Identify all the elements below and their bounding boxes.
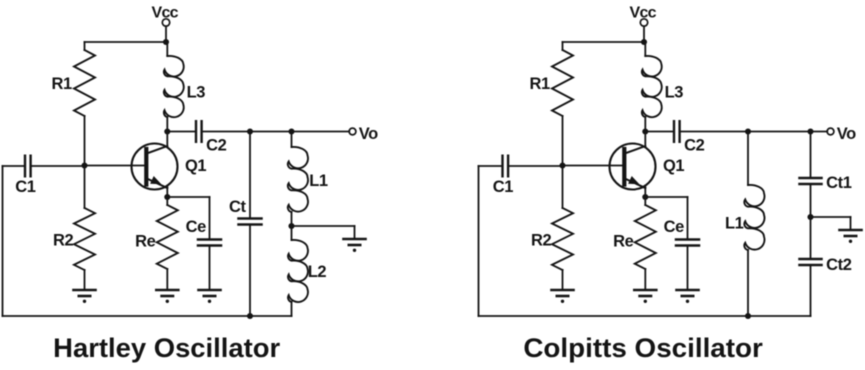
Colpitts: capacitor Ct2 bbox=[800, 258, 822, 261]
svg-text:Ct2: Ct2 bbox=[826, 256, 852, 274]
svg-text:C1: C1 bbox=[493, 178, 514, 196]
Colpitts: wire collector node to Q1 bbox=[644, 132, 646, 148]
Colpitts: capacitor Ct1 bbox=[800, 177, 822, 180]
Hartley: wire C2 to output rail bbox=[202, 131, 350, 133]
Colpitts: inductor L3 bbox=[642, 56, 662, 117]
Colpitts: transistor Q1 body bbox=[610, 144, 656, 190]
Hartley: wire L3 top lead bbox=[166, 42, 168, 56]
Colpitts: wire Re to ground bbox=[644, 269, 646, 290]
Colpitts: wire Ce top lead bbox=[687, 197, 689, 240]
Colpitts: transistor Q1 base bar bbox=[622, 149, 626, 185]
Hartley: junction L1 node bbox=[288, 128, 294, 134]
svg-text:L1: L1 bbox=[725, 215, 744, 233]
Hartley: ground below Re bbox=[156, 289, 178, 292]
Colpitts: capacitor C1 bbox=[501, 156, 503, 177]
Colpitts: wire Ct1 top lead bbox=[810, 132, 812, 179]
Colpitts: wire Q1 emitter to emitter node bbox=[644, 186, 646, 198]
svg-text:Vo: Vo bbox=[837, 125, 856, 143]
Hartley: wire collector node to Q1 bbox=[166, 132, 168, 148]
svg-text:Q1: Q1 bbox=[663, 157, 684, 175]
Colpitts: junction top node bbox=[641, 39, 647, 45]
Hartley: wire L1 to tap node bbox=[291, 212, 293, 226]
svg-text:Ce: Ce bbox=[186, 218, 207, 236]
svg-text:R1: R1 bbox=[530, 75, 551, 93]
Hartley: bottom rail wire bbox=[3, 315, 292, 317]
Hartley: resistor R1 bbox=[74, 50, 95, 116]
Hartley: wire C1 to base node bbox=[31, 165, 85, 167]
Hartley: wire collector node to C2 bbox=[167, 131, 196, 133]
Hartley: transistor Q1 emitter arrowhead bbox=[150, 176, 161, 184]
Colpitts: wire Ct1 to tap node bbox=[810, 184, 812, 217]
Colpitts: ground below Ce bbox=[677, 289, 699, 292]
Colpitts: wire R1 to base node bbox=[562, 116, 564, 166]
Hartley: wire Ce to ground bbox=[209, 246, 211, 291]
Colpitts: wire Re top lead bbox=[644, 197, 646, 205]
Hartley: junction base node bbox=[81, 162, 87, 168]
Hartley: transistor Q1 emitter stroke bbox=[147, 179, 168, 189]
Colpitts: Vcc terminal bbox=[640, 19, 647, 26]
Colpitts: wire Vcc to top node bbox=[643, 26, 645, 42]
Colpitts: wire L3 to collector node bbox=[644, 117, 646, 132]
Colpitts: wire R1 top lead bbox=[562, 42, 564, 50]
Colpitts: ground below Re bbox=[634, 289, 656, 292]
svg-text:R2: R2 bbox=[531, 231, 552, 249]
Hartley: ground at tap bbox=[344, 238, 366, 241]
Colpitts: ground at tap bbox=[840, 229, 862, 232]
svg-text:Q1: Q1 bbox=[185, 157, 206, 175]
svg-text:C1: C1 bbox=[15, 178, 36, 196]
Hartley: wire R2 top lead bbox=[84, 166, 86, 209]
Colpitts: wire L1 top lead bbox=[747, 132, 749, 186]
Colpitts: wire R2 top lead bbox=[562, 166, 564, 209]
Hartley: wire top rail to R1 bbox=[85, 41, 167, 43]
Colpitts: junction Ct1 node bbox=[807, 128, 813, 134]
Hartley: wire Ct bottom lead bbox=[249, 225, 251, 317]
Colpitts: output terminal Vo bbox=[827, 128, 834, 135]
svg-text:Re: Re bbox=[613, 233, 634, 251]
Colpitts: resistor Re bbox=[635, 205, 656, 269]
Hartley: wire Re to ground bbox=[166, 269, 168, 290]
Hartley: inductor L2 bbox=[288, 240, 308, 302]
svg-text:Vo: Vo bbox=[359, 125, 378, 143]
Hartley: transistor Q1 base bar bbox=[144, 149, 148, 185]
Hartley: wire tap to ground bbox=[292, 225, 355, 227]
Colpitts: wire C1 left lead bbox=[479, 165, 503, 167]
Colpitts: junction collector node bbox=[642, 128, 648, 134]
Hartley: resistor Re bbox=[157, 205, 178, 269]
Colpitts: wire emitter node to Ce bbox=[645, 196, 687, 198]
Colpitts: wire tap to ground bbox=[811, 216, 851, 218]
Hartley: junction top node bbox=[163, 39, 169, 45]
Colpitts: wire Ct2 bottom lead bbox=[810, 265, 812, 316]
Hartley: transistor Q1 collector stroke bbox=[147, 146, 168, 154]
Hartley: inductor L3 bbox=[164, 56, 184, 117]
Colpitts: wire L1 bottom lead bbox=[747, 250, 749, 316]
Colpitts: wire L3 top lead bbox=[644, 42, 646, 56]
svg-text:L3: L3 bbox=[665, 84, 684, 102]
Hartley: ground below R2 bbox=[74, 289, 96, 292]
Hartley: wire R1 top lead bbox=[84, 42, 86, 50]
Hartley: output terminal Vo bbox=[349, 128, 356, 135]
Hartley: transistor Q1 body bbox=[132, 144, 178, 190]
Colpitts: junction L1 bottom node bbox=[745, 313, 751, 319]
Colpitts: wire base bbox=[563, 165, 623, 167]
Hartley: wire left edge bbox=[2, 166, 4, 316]
Colpitts: wire C1 to base node bbox=[508, 165, 562, 167]
Colpitts: transistor Q1 emitter arrowhead bbox=[628, 176, 639, 184]
svg-text:Colpitts Oscillator: Colpitts Oscillator bbox=[523, 333, 763, 363]
svg-text:Hartley Oscillator: Hartley Oscillator bbox=[53, 333, 281, 363]
Hartley: resistor R2 bbox=[74, 208, 95, 270]
Colpitts: junction base node bbox=[559, 162, 565, 168]
Hartley: capacitor C2 bbox=[195, 121, 197, 142]
Hartley: junction Ct node bbox=[247, 128, 253, 134]
Hartley: wire L2 top lead bbox=[291, 226, 293, 240]
Hartley: wire C1 left lead bbox=[3, 165, 26, 167]
svg-text:L3: L3 bbox=[187, 84, 206, 102]
Hartley: wire L1 top lead bbox=[291, 132, 293, 148]
Hartley: Vcc terminal bbox=[162, 19, 169, 26]
Hartley: junction emitter node bbox=[164, 194, 170, 200]
svg-text:Re: Re bbox=[135, 233, 156, 251]
Hartley: junction tap node bbox=[288, 223, 294, 229]
svg-text:C2: C2 bbox=[684, 137, 705, 155]
svg-text:R2: R2 bbox=[53, 231, 74, 249]
svg-text:Ct1: Ct1 bbox=[826, 174, 852, 192]
svg-text:L2: L2 bbox=[308, 263, 327, 281]
Hartley: capacitor C1 bbox=[24, 156, 26, 177]
svg-text:Ce: Ce bbox=[664, 218, 685, 236]
Colpitts: junction emitter node bbox=[642, 194, 648, 200]
Colpitts: inductor L1 bbox=[744, 185, 764, 250]
Hartley: junction collector node bbox=[164, 128, 170, 134]
Colpitts: transistor Q1 emitter stroke bbox=[625, 179, 646, 189]
Hartley: wire R2 to ground bbox=[84, 270, 86, 290]
Hartley: ground below Ce bbox=[199, 289, 221, 292]
Hartley: capacitor Ct bbox=[239, 217, 262, 220]
Colpitts: wire collector node to C2 bbox=[645, 131, 674, 133]
Hartley: wire R1 to base node bbox=[84, 116, 86, 166]
Colpitts: transistor Q1 collector stroke bbox=[625, 146, 646, 154]
Hartley: wire Q1 emitter to emitter node bbox=[166, 186, 168, 198]
Colpitts: capacitor Ce bbox=[676, 238, 699, 241]
Colpitts: wire Ce to ground bbox=[687, 246, 689, 291]
Hartley: wire emitter node to Ce bbox=[167, 196, 209, 198]
Hartley: wire Ct top lead bbox=[249, 132, 251, 219]
Colpitts: junction L1 node bbox=[745, 128, 751, 134]
Hartley: wire Vcc to top node bbox=[165, 26, 167, 42]
Colpitts: wire left edge bbox=[478, 166, 480, 316]
Hartley: wire base bbox=[85, 165, 145, 167]
Colpitts: ground below R2 bbox=[552, 289, 574, 292]
Hartley: wire Re top lead bbox=[166, 197, 168, 205]
Hartley: junction Ct bottom node bbox=[247, 313, 253, 319]
Colpitts: wire C2 to output rail bbox=[680, 131, 828, 133]
Colpitts: resistor R1 bbox=[552, 50, 573, 116]
Colpitts: wire top rail to R1 bbox=[563, 41, 645, 43]
Colpitts: wire Ct2 top lead bbox=[810, 217, 812, 259]
Colpitts: capacitor C2 bbox=[673, 121, 675, 142]
Hartley: inductor L1 bbox=[288, 147, 308, 212]
Colpitts: bottom rail wire bbox=[479, 315, 811, 317]
Hartley: wire L3 to collector node bbox=[166, 117, 168, 132]
svg-text:C2: C2 bbox=[206, 137, 227, 155]
svg-text:R1: R1 bbox=[52, 75, 73, 93]
Hartley: wire Ce top lead bbox=[209, 197, 211, 240]
Colpitts: wire R2 to ground bbox=[562, 270, 564, 290]
Hartley: wire L2 bottom lead bbox=[291, 302, 293, 316]
Colpitts: junction tap node bbox=[807, 214, 813, 220]
Hartley: capacitor Ce bbox=[198, 238, 221, 241]
svg-text:Ct: Ct bbox=[229, 198, 247, 216]
svg-text:L1: L1 bbox=[309, 172, 328, 190]
Colpitts: resistor R2 bbox=[552, 208, 573, 270]
